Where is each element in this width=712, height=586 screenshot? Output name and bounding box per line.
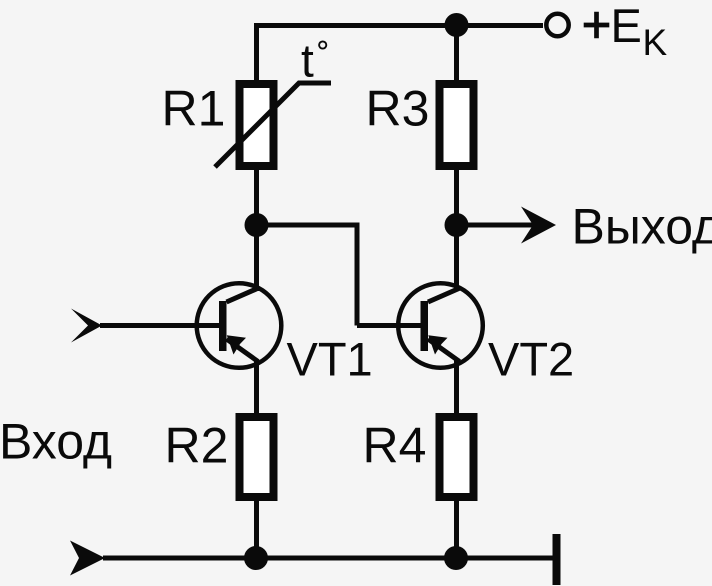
svg-text:Вход: Вход: [0, 414, 112, 470]
svg-text:Выход: Выход: [572, 199, 712, 255]
svg-text:R2: R2: [165, 418, 229, 474]
svg-text:t: t: [301, 35, 314, 87]
svg-text:VT2: VT2: [488, 333, 574, 386]
svg-text:VT1: VT1: [287, 333, 373, 386]
svg-text:R1: R1: [162, 81, 226, 137]
svg-text:R4: R4: [363, 418, 427, 474]
svg-text:R3: R3: [366, 81, 430, 137]
svg-text:E: E: [611, 0, 642, 52]
svg-text:K: K: [643, 22, 668, 63]
